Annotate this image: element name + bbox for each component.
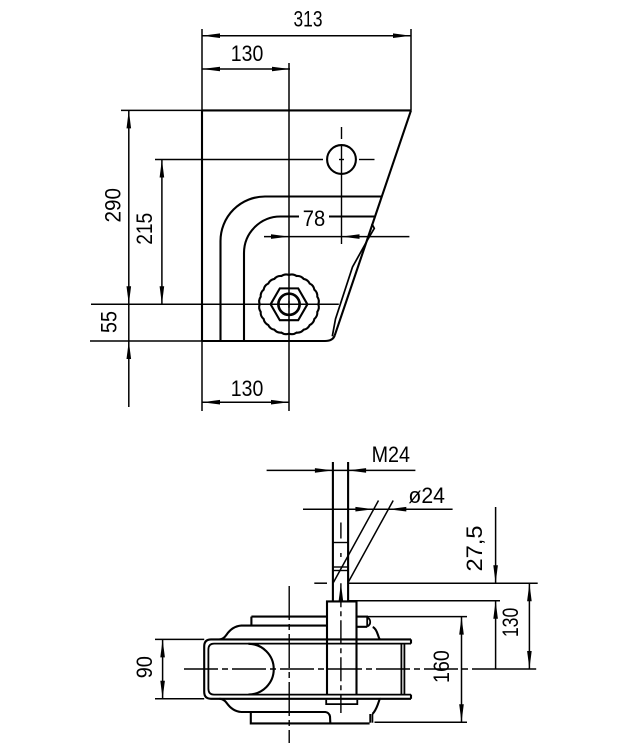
wire: 313 dimension line: [202, 35, 411, 37]
roller right top shoulder curve: [373, 627, 381, 639]
wire: M24 dimension line: [267, 469, 416, 471]
wire: oblique extension leaders for diameter 24: [333, 501, 393, 583]
block (nut housing): [327, 601, 357, 695]
wire: vertical reference line with up arrow at plate: [340, 583, 342, 713]
bolt M24 with serrated flange: [259, 274, 319, 334]
node: bolt horizontal centerline y=304.3: [91, 303, 339, 305]
svg-text:290: 290: [101, 188, 126, 223]
roller left step edge: [250, 617, 252, 626]
bolt thread circles: [279, 294, 299, 314]
wire: slanted right edge: [335, 110, 411, 335]
wire: inner bend line: [244, 217, 375, 342]
right fork plate: [401, 644, 404, 695]
stud M24 body: [333, 462, 348, 601]
wire: 130 top dimension line: [202, 68, 290, 70]
wire: 160 dimension: [461, 617, 463, 723]
svg-text:55: 55: [96, 311, 121, 333]
roller bottom small section line: [241, 712, 330, 723]
svg-text:M24: M24: [372, 442, 410, 467]
wire: plate bottom edge: [202, 335, 335, 341]
roller left bottom shoulder curve: [220, 699, 242, 712]
svg-text:215: 215: [132, 213, 157, 245]
fork strap outer outline (rounded left end): [204, 639, 411, 698]
wire: extension line right x=411: [410, 29, 412, 110]
wire: plate top surface line y=583.2: [314, 582, 537, 584]
wire: 55 dimension line below: [128, 304, 130, 407]
wire: 290 extension line at top edge: [121, 109, 202, 111]
wire: left edge + extension x=202: [201, 29, 203, 411]
svg-text:90: 90: [132, 656, 157, 678]
svg-text:130: 130: [231, 376, 263, 401]
wire: 290 dimension line: [128, 110, 130, 304]
wire: 78 dimension line: [264, 236, 409, 238]
axle dome semicircle: [248, 644, 273, 695]
svg-text:130: 130: [231, 41, 263, 66]
hole top circle: [327, 145, 356, 174]
svg-text:78: 78: [303, 206, 326, 231]
node: bolt vertical centerline x=289: [288, 63, 290, 411]
svg-text:313: 313: [294, 7, 323, 32]
value label 78 (white backed): [299, 207, 329, 228]
svg-text:130: 130: [498, 608, 523, 638]
roller bottom right step edges: [370, 714, 372, 723]
wire: diameter 24 dimension line: [303, 508, 453, 510]
bolt hexagon: [271, 288, 308, 320]
wire: inner slant (sheet edge) with notch: [332, 224, 374, 337]
wire: 90 dimension: [155, 639, 204, 698]
node: roller horizontal centerline: [184, 668, 536, 670]
roller small section top line: [241, 626, 367, 627]
svg-text:ø24: ø24: [408, 483, 445, 508]
washer under block: [326, 700, 357, 704]
fork strap inner lines: [208, 644, 411, 695]
wire: fork top surface line y=600.7: [348, 600, 500, 602]
wire: outer bend line: [221, 197, 383, 342]
wire: 130 dimension (side): [528, 583, 530, 669]
roller right bottom shoulder curve: [372, 699, 380, 714]
node: hole horizontal centerline / 215 extension: [155, 159, 375, 161]
wire: 160 top extension line: [368, 616, 467, 618]
roller bottom large section: [251, 712, 370, 723]
stud thread end lines: [333, 543, 348, 571]
node: swivel axis vertical centerline: [288, 586, 290, 743]
roller left top shoulder curve: [220, 626, 242, 640]
wire: plate top edge: [202, 109, 411, 111]
bolt center mark: [286, 301, 293, 308]
roller top edge large section: [251, 616, 368, 618]
wire: bottom edge extension to left: [90, 340, 202, 342]
roller right step arch: [367, 617, 370, 627]
wire: 160 bottom extension line: [375, 721, 468, 723]
node: stud centerline dashes: [340, 523, 342, 558]
node: hole vertical centerline: [341, 127, 343, 244]
svg-text:27,5: 27,5: [462, 526, 487, 572]
wire: 130 bottom dimension line: [202, 401, 289, 403]
wire: 215 dimension line: [161, 160, 163, 305]
wire: 27.5 dimension: [495, 507, 497, 669]
svg-text:160: 160: [429, 650, 454, 683]
